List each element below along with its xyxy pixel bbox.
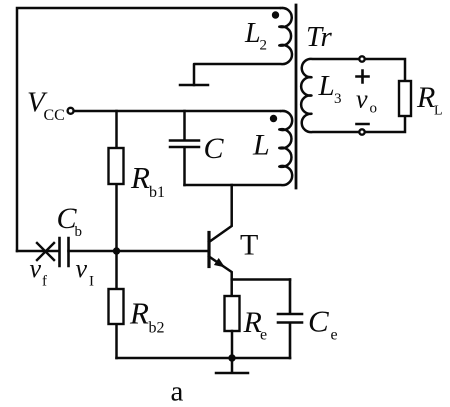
svg-text:L: L [252,129,270,162]
svg-text:L: L [318,70,335,102]
svg-text:R: R [129,296,149,331]
svg-text:b: b [75,224,83,240]
svg-text:Tr: Tr [306,21,333,53]
svg-text:f: f [42,274,47,290]
svg-text:3: 3 [334,91,342,107]
svg-text:2: 2 [260,38,268,54]
svg-text:R: R [130,160,150,195]
svg-text:R: R [243,306,262,339]
svg-text:CC: CC [44,107,65,124]
svg-text:v: v [30,254,42,283]
svg-text:o: o [370,101,378,117]
svg-text:v: v [76,254,88,283]
svg-text:a: a [171,376,184,407]
svg-text:C: C [308,304,329,339]
svg-text:v: v [356,85,368,114]
svg-text:I: I [89,274,94,290]
svg-text:e: e [260,327,267,344]
svg-text:b1: b1 [149,184,165,201]
svg-text:b2: b2 [149,320,165,337]
svg-text:T: T [240,229,258,262]
svg-text:R: R [416,81,435,114]
svg-text:L: L [434,104,443,119]
svg-text:L: L [244,18,261,49]
svg-text:e: e [331,327,338,344]
svg-text:C: C [204,132,225,165]
